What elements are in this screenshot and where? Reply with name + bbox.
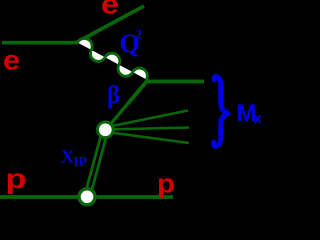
- svg-text:β: β: [107, 82, 120, 109]
- wire: redraw junction over coil: [128, 81, 204, 104]
- svg-text:e: e: [101, 0, 119, 20]
- wire: fan hadron line 2: [107, 128, 189, 130]
- wire: proton beam line p: [0, 195, 173, 199]
- wire: scattered electron line e': [76, 6, 144, 43]
- wire: quark line from photon vertex to blob: [106, 81, 148, 130]
- svg-text:x: x: [254, 110, 263, 127]
- svg-text:p: p: [6, 163, 27, 194]
- wire: fan hadron line 1: [107, 111, 188, 128]
- wire: pomeron double line (right strand): [90, 131, 108, 198]
- svg-text:X: X: [61, 147, 74, 167]
- brace M_X: [214, 77, 228, 147]
- wire: incoming electron line e: [2, 41, 77, 45]
- wire: fan hadron line 3: [107, 132, 189, 143]
- wire: top hadron line of system X: [145, 80, 204, 84]
- vertex blob upper (photon-pomeron vertex): [98, 122, 114, 138]
- photon coil (virtual photon gamma*): [78, 38, 148, 79]
- svg-text:2: 2: [136, 26, 143, 41]
- svg-text:e: e: [3, 45, 20, 76]
- vertex blob lower (proton-pomeron vertex): [79, 189, 95, 205]
- svg-text:p: p: [157, 169, 175, 199]
- wire: pomeron double line (left strand): [84, 130, 102, 197]
- svg-text:IP: IP: [74, 154, 88, 169]
